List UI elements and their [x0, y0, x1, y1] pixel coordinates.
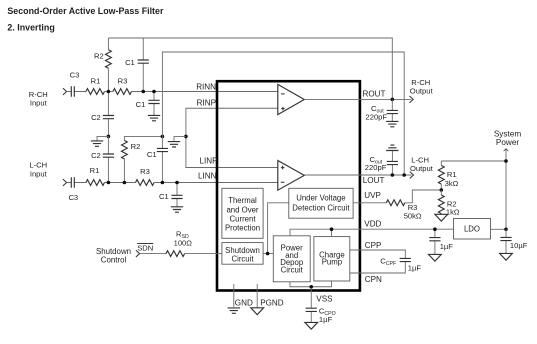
- wire UVP to R3: [353, 202, 386, 204]
- svg-text:ROUT: ROUT: [363, 90, 386, 99]
- svg-text:Pump: Pump: [322, 257, 343, 266]
- capacitor C1 (L-CH to ground): [159, 183, 183, 207]
- wire R-CH feedback top rail to ROUT: [108, 38, 392, 99]
- block: Thermal and Over Current Protection: [222, 188, 263, 238]
- svg-text:LDO: LDO: [464, 224, 480, 233]
- wire R3 to LINN pin (into op-amp U2 inverting input): [154, 182, 278, 184]
- resistor R2 (L-CH feedback): [122, 136, 163, 182]
- R-CH output arrow: [410, 96, 414, 103]
- ground (RINP/LINP): [168, 136, 186, 147]
- svg-text:Power: Power: [496, 138, 519, 147]
- ground (GND): [228, 308, 240, 313]
- node: C1-ground junction on RINN line: [152, 90, 156, 94]
- node: VDD / charge pump junction: [330, 227, 334, 231]
- node: system power / divider junction: [504, 159, 508, 163]
- svg-text:C2: C2: [91, 113, 101, 122]
- resistor R3 (R-CH): [113, 77, 132, 95]
- wire L-CH feedback rail to LOUT: [162, 52, 404, 175]
- capacitor C3 (R-CH): [67, 70, 86, 96]
- svg-text:Input: Input: [30, 169, 48, 178]
- ground (inverted, above L-CH Cout): [386, 145, 398, 150]
- svg-text:C1: C1: [159, 192, 169, 201]
- capacitor C2 (L-CH): [91, 136, 114, 182]
- capacitor C_CPO 1uF: [306, 306, 336, 323]
- node: VDD / 1uF junction: [433, 227, 437, 231]
- block: Charge Pump: [314, 237, 350, 281]
- wire shutdown control to RSD: [140, 253, 166, 255]
- svg-text:R3: R3: [118, 77, 128, 86]
- node: C1 feedback junction on RINN line: [141, 90, 145, 94]
- wire VSS bus: [290, 281, 332, 308]
- wire CPP: [350, 250, 406, 258]
- svg-text:10µF: 10µF: [510, 241, 528, 250]
- wire ROUT output: [304, 98, 411, 100]
- node: RINP/LINP ground junction: [184, 135, 188, 139]
- node: R-CH node A (R1/R2/R3/C2 junction): [107, 90, 111, 94]
- svg-text:2. Inverting: 2. Inverting: [7, 22, 54, 32]
- op-amp U2 (L-CH): [278, 161, 305, 191]
- capacitor C3 (L-CH): [67, 177, 86, 202]
- svg-text:PGND: PGND: [260, 299, 284, 308]
- wire RSD to shutdown circuit: [185, 253, 222, 255]
- resistor R2 (R-CH feedback): [94, 38, 111, 92]
- op-amp U1 (R-CH): [278, 84, 305, 114]
- wire RINP to ground elbow: [186, 108, 278, 136]
- svg-text:and Over: and Over: [226, 205, 258, 214]
- svg-text:Control: Control: [101, 255, 127, 264]
- ground (under VDD 1uF, triangle): [429, 254, 442, 261]
- svg-text:Circuit: Circuit: [281, 266, 304, 275]
- svg-text:GND: GND: [235, 299, 253, 308]
- ground (under 10uF, triangle): [500, 253, 513, 260]
- R-CH input arrow: [63, 88, 67, 95]
- resistor R1 (R-CH): [86, 77, 105, 95]
- wire: UVD box to shutdown net: [268, 203, 289, 254]
- svg-text:R1: R1: [91, 77, 101, 86]
- svg-text:1µF: 1µF: [408, 263, 422, 272]
- wire R3 to divider node: [405, 190, 441, 203]
- svg-text:CPP: CPP: [365, 241, 382, 250]
- svg-text:SDN: SDN: [137, 243, 153, 252]
- ground (under R-CH Cout): [386, 121, 398, 126]
- wire CPN: [350, 262, 406, 273]
- block: Under Voltage Detection Circuit: [289, 188, 353, 218]
- svg-text:LINN: LINN: [198, 172, 217, 181]
- svg-text:CPN: CPN: [365, 275, 382, 284]
- node: C1-ground junction on LINN line: [175, 181, 179, 185]
- node: shared C2 ground junction: [107, 135, 111, 139]
- wire LINP to ground elbow: [186, 136, 278, 167]
- svg-text:R3: R3: [140, 167, 150, 176]
- svg-text:Circuit: Circuit: [231, 255, 254, 264]
- svg-text:Protection: Protection: [225, 223, 260, 232]
- wire divider to system power line: [441, 160, 506, 162]
- ground (under R-CH C1): [148, 115, 160, 120]
- svg-text:Current: Current: [230, 214, 257, 223]
- svg-text:1kΩ: 1kΩ: [446, 208, 460, 217]
- svg-text:220pF: 220pF: [365, 163, 387, 172]
- capacitor C2 (R-CH): [91, 92, 114, 137]
- svg-text:Thermal: Thermal: [228, 196, 257, 205]
- svg-text:Second-Order Active Low-Pass F: Second-Order Active Low-Pass Filter: [7, 6, 164, 16]
- wire LDO output to system power: [491, 228, 507, 230]
- L-CH output arrow: [410, 172, 414, 179]
- node: shutdown net junction: [266, 252, 270, 256]
- ground (under L-CH C1): [171, 207, 183, 212]
- svg-text:LOUT: LOUT: [363, 176, 385, 185]
- capacitor C_CPF 1uF: [380, 256, 421, 272]
- svg-text:R2: R2: [131, 142, 141, 151]
- net label SDN (active low): [137, 243, 153, 252]
- L-CH input arrow: [63, 179, 67, 186]
- svg-text:C1: C1: [125, 58, 135, 67]
- wire: shutdown box to power/depop box: [263, 253, 273, 255]
- svg-text:1µF: 1µF: [440, 242, 454, 251]
- wire VDD rail (inside + outside to LDO): [290, 229, 454, 236]
- capacitor 1uF (VDD): [429, 229, 453, 254]
- svg-text:Under Voltage: Under Voltage: [296, 194, 345, 203]
- svg-text:C3: C3: [70, 70, 80, 79]
- resistor R1 3k: [438, 161, 458, 190]
- svg-text:Output: Output: [410, 164, 434, 173]
- svg-text:R1: R1: [90, 166, 100, 175]
- svg-text:Input: Input: [30, 98, 48, 107]
- wire GND pin: [233, 284, 235, 307]
- svg-text:RINN: RINN: [196, 82, 216, 91]
- resistor R3 (L-CH): [136, 167, 155, 185]
- resistor R3 50k: [386, 200, 422, 220]
- wire R3 to RINN pin (into op-amp U1 inverting input): [132, 91, 278, 93]
- svg-text:VSS: VSS: [316, 295, 333, 304]
- svg-text:CCPF: CCPF: [380, 256, 396, 267]
- LDO U3: [454, 219, 491, 240]
- svg-text:C3: C3: [68, 193, 78, 202]
- ground (VSS, triangle): [305, 322, 318, 329]
- wire system power rail: [505, 149, 507, 229]
- shutdown input arrow: [136, 250, 140, 257]
- block: Shutdown Circuit: [222, 243, 263, 265]
- ground (PGND, triangle): [251, 308, 264, 315]
- svg-text:50kΩ: 50kΩ: [404, 211, 422, 220]
- node: ROUT / feedback / Cout junction: [391, 98, 395, 102]
- svg-text:L-CH: L-CH: [411, 156, 429, 165]
- capacitor C1 (R-CH to ground): [136, 92, 160, 116]
- wire LOUT output: [304, 174, 411, 176]
- svg-text:C2: C2: [91, 151, 101, 160]
- svg-text:R2: R2: [94, 52, 104, 61]
- wire PGND pin: [256, 284, 258, 308]
- node: divider junction: [440, 188, 444, 192]
- node: VSS junction: [309, 285, 313, 289]
- svg-text:C1: C1: [136, 100, 146, 109]
- IC body: [217, 81, 360, 290]
- node: L-CH feedback R2/C1 junction: [161, 135, 165, 139]
- ground (under R2 1k, triangle): [435, 214, 448, 221]
- svg-text:100Ω: 100Ω: [174, 239, 193, 248]
- capacitor C1 (R-CH feedback): [125, 38, 149, 92]
- capacitor Cout (L-CH) 220pF: [365, 151, 398, 176]
- capacitor 10uF: [500, 229, 527, 253]
- resistor RSD 100 ohm: [166, 230, 192, 257]
- svg-text:R1: R1: [447, 170, 457, 179]
- capacitor C1 (L-CH feedback): [147, 136, 168, 182]
- node: LOUT / Cout junction: [391, 173, 395, 177]
- block: Power and Depop Circuit: [273, 236, 310, 282]
- svg-text:VDD: VDD: [364, 219, 381, 228]
- svg-text:C1: C1: [147, 150, 157, 159]
- svg-text:LINP: LINP: [200, 156, 218, 165]
- resistor R1 (L-CH): [86, 166, 105, 186]
- wire R1 to R3 (L-CH): [105, 182, 136, 184]
- resistor R2 1k: [438, 190, 460, 217]
- wire R1 to R3: [105, 91, 113, 93]
- svg-text:RINP: RINP: [197, 98, 216, 107]
- node: LDO / system power junction: [504, 228, 508, 232]
- svg-text:3kΩ: 3kΩ: [445, 179, 459, 188]
- node: L-CH node A (R2 junction): [123, 181, 127, 185]
- svg-text:1µF: 1µF: [319, 315, 333, 324]
- svg-text:L-CH: L-CH: [29, 161, 47, 170]
- svg-text:220pF: 220pF: [366, 113, 388, 122]
- svg-text:Output: Output: [410, 87, 434, 96]
- system power arrow (up): [504, 149, 509, 152]
- capacitor Cout (R-CH) 220pF: [366, 99, 398, 121]
- ground (shared, left of C2 node): [91, 136, 109, 146]
- svg-text:UVP: UVP: [364, 191, 381, 200]
- svg-text:Detection Circuit: Detection Circuit: [292, 204, 350, 213]
- node: C1 feedback junction on LINN line: [161, 181, 165, 185]
- node: LOUT / feedback junction: [402, 173, 406, 177]
- node: L-CH C2 junction: [107, 181, 111, 185]
